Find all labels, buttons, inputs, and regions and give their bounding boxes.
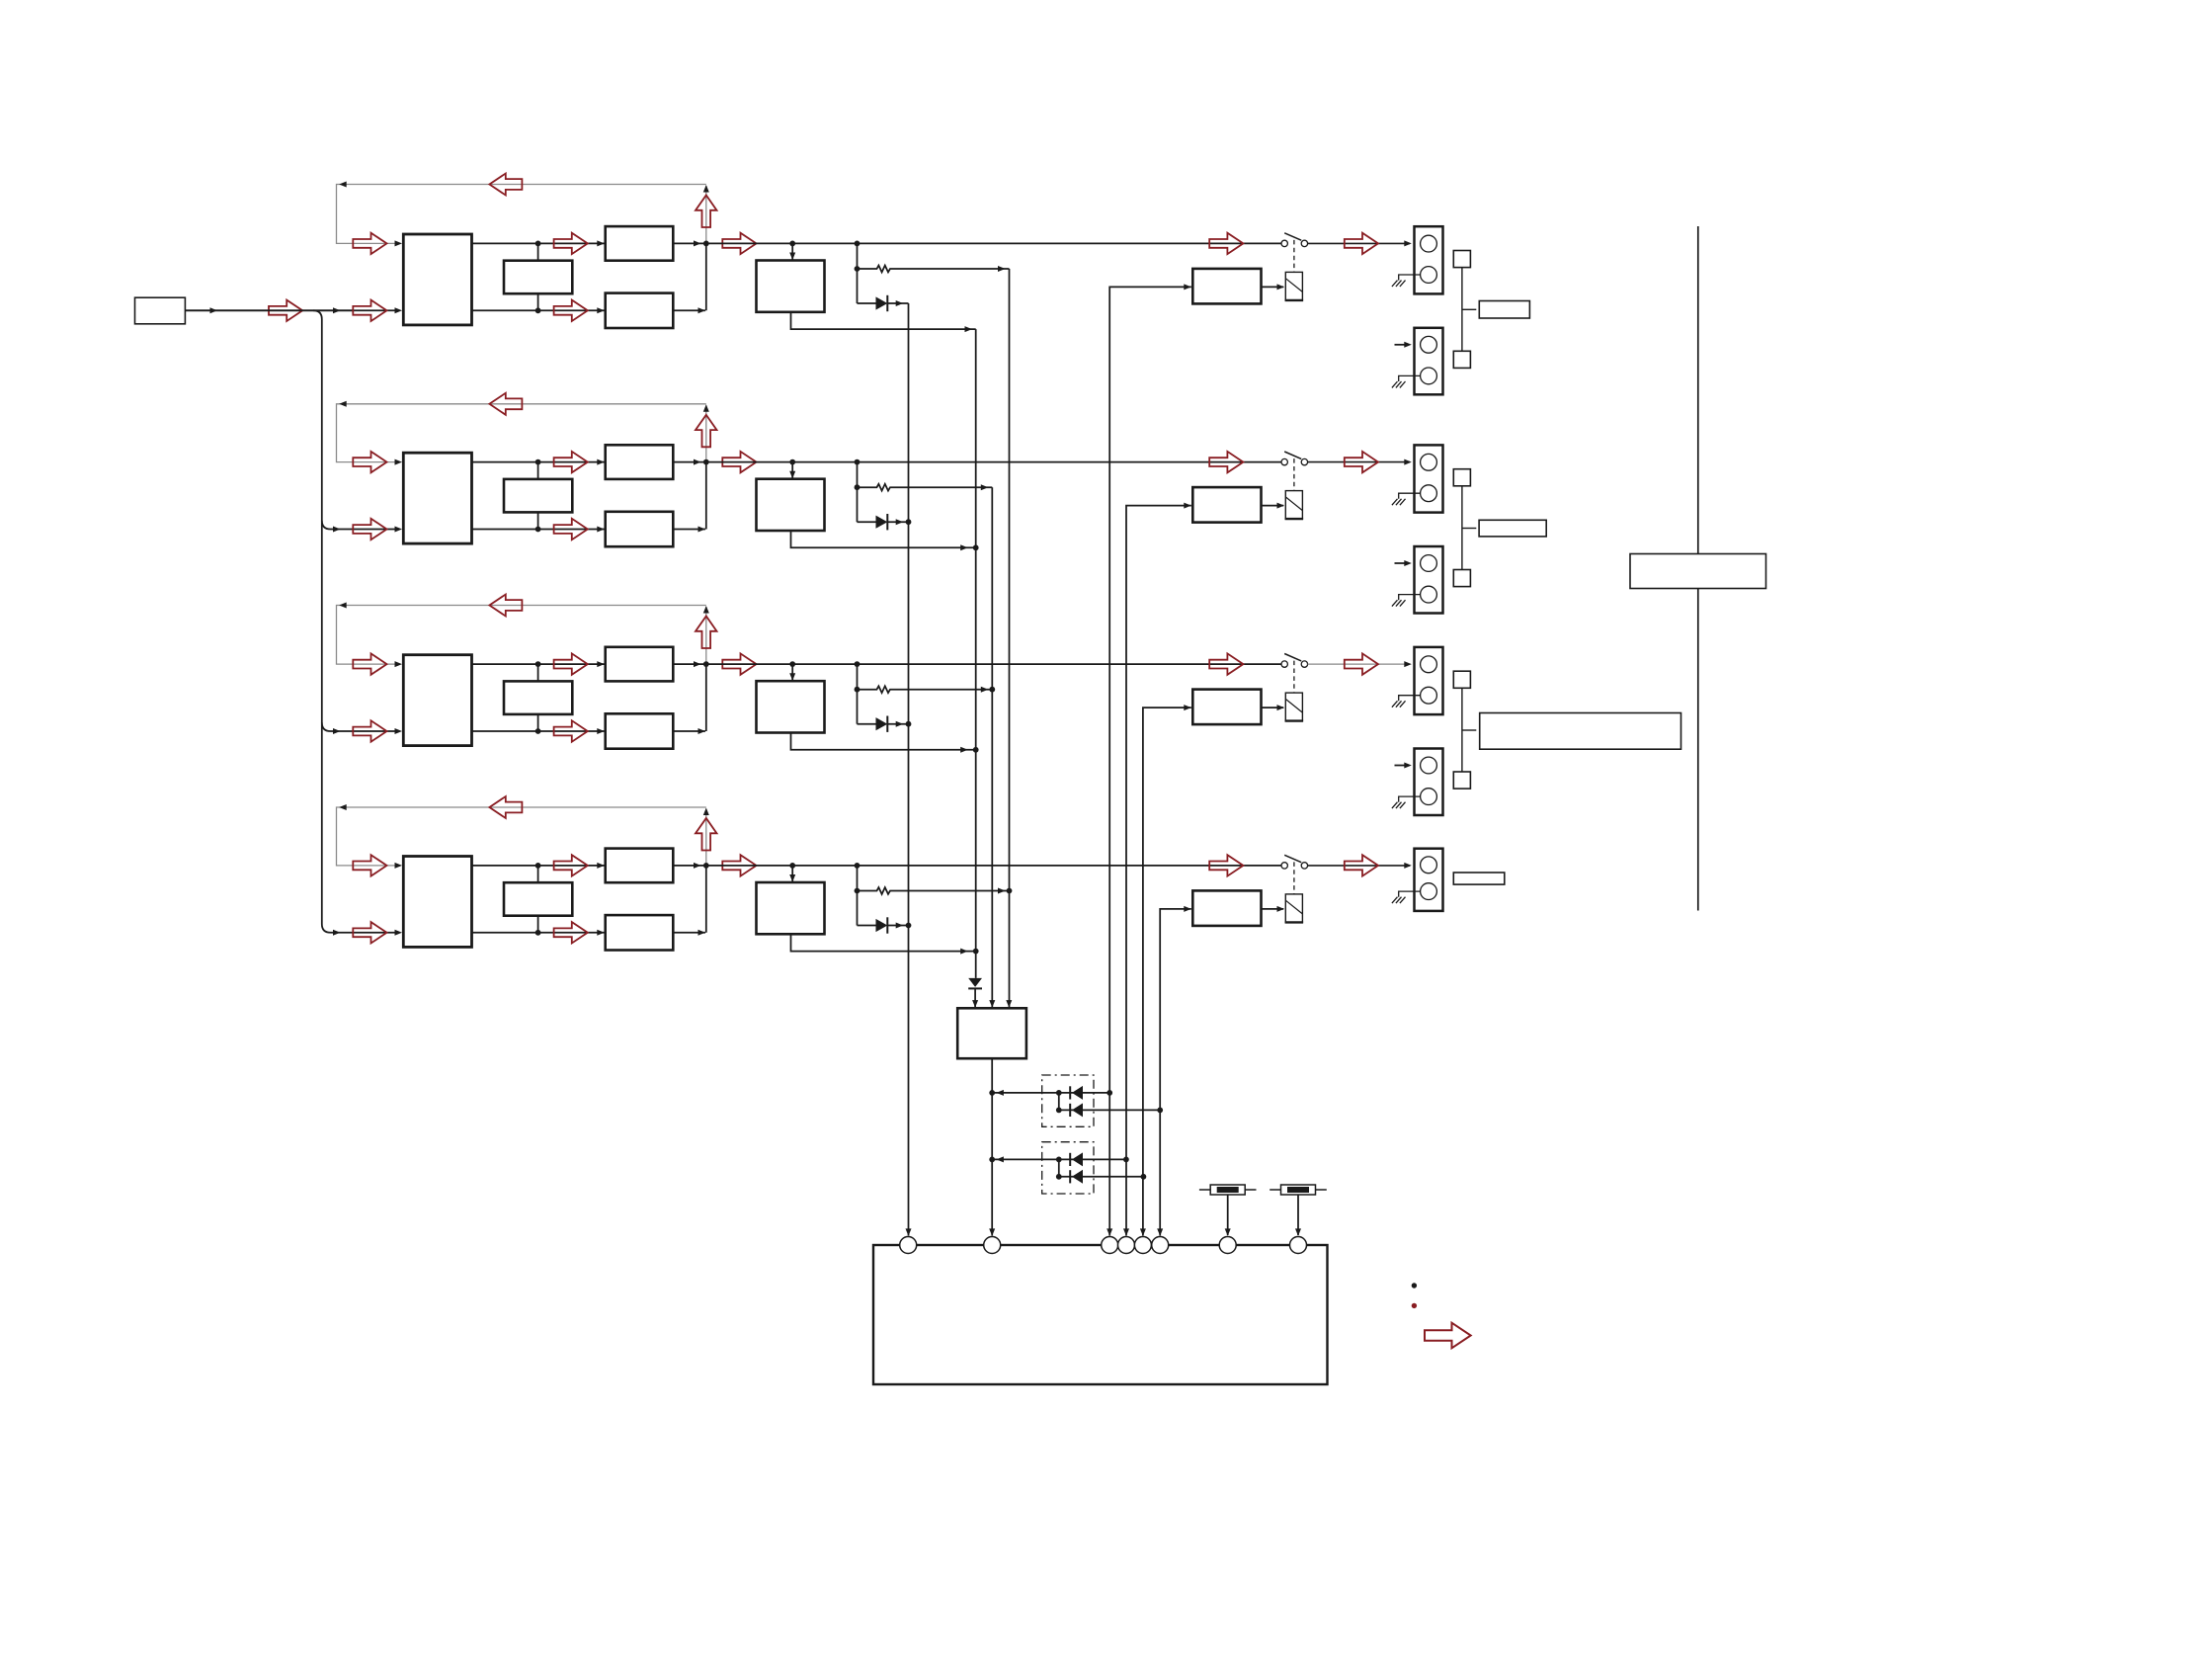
wire relay dashed link ch3 bbox=[1293, 661, 1295, 694]
diode pair box DP2 bbox=[1042, 1142, 1094, 1194]
terminal circle J3A-1 bbox=[1421, 656, 1437, 673]
diode CR8 bbox=[1070, 1152, 1083, 1166]
node resistor bus join ch3 bbox=[989, 687, 995, 693]
terminal T3 bbox=[1102, 1237, 1118, 1254]
arrowhead lower input ch2 bbox=[395, 527, 403, 533]
connector pad S2B bbox=[1453, 570, 1470, 587]
wire chassis bus lower bbox=[1697, 589, 1699, 911]
wire driver out ch1 bbox=[791, 312, 976, 332]
wire switch to terminals ch2 bbox=[1308, 459, 1412, 465]
wire relay coil feed ch1 bbox=[1262, 284, 1285, 290]
wire ground stub J3B bbox=[1399, 796, 1421, 802]
wire filter stubs ch1 bbox=[537, 243, 539, 310]
wire ground stub J1A bbox=[1399, 275, 1421, 281]
connector pad S2A bbox=[1453, 469, 1470, 486]
signal flow arrow post switch ch1 bbox=[1345, 233, 1378, 254]
node lower junction ch3 bbox=[535, 728, 541, 734]
wire relay feed ch3 bbox=[1140, 705, 1191, 1236]
node lower junction ch1 bbox=[535, 307, 541, 313]
wire filter stubs ch4 bbox=[537, 866, 539, 933]
wire feedback rise ch4 bbox=[703, 808, 709, 866]
wire upper output ch1 bbox=[472, 240, 605, 246]
wire output line ch4 bbox=[706, 865, 1281, 867]
ground J4A bbox=[1392, 897, 1406, 903]
impedance block Z2 bbox=[1479, 520, 1546, 537]
connector pad S3A bbox=[1453, 671, 1470, 688]
wire chassis bus upper bbox=[1697, 226, 1699, 554]
driver block D3 bbox=[757, 681, 825, 732]
node upper junction ch2 bbox=[535, 459, 541, 465]
wire driver drop ch2 bbox=[789, 462, 795, 479]
impedance block Z3 bbox=[1480, 713, 1681, 750]
node output junction ch4 bbox=[703, 863, 709, 869]
node sense tap ch4 bbox=[855, 863, 860, 869]
switch SW4 bbox=[1281, 855, 1308, 869]
wire link vertical ch1 bbox=[1462, 268, 1476, 352]
chassis block bbox=[1630, 554, 1766, 589]
driver block D4 bbox=[757, 882, 825, 934]
signal flow arrow post switch ch4 bbox=[1345, 855, 1378, 875]
wire ground stub J4A bbox=[1399, 891, 1421, 897]
node DP2 inner upper bbox=[1056, 1157, 1062, 1163]
wire stub J2B bbox=[1395, 560, 1412, 566]
resistor R3 bbox=[858, 686, 993, 693]
wire DP1 lower bbox=[1059, 1109, 1160, 1111]
node driver tap ch4 bbox=[789, 863, 795, 869]
resistor R4 bbox=[858, 887, 1010, 894]
fuse F1 bbox=[1199, 1185, 1257, 1236]
node upper junction ch4 bbox=[535, 863, 541, 869]
signal flow arrow lower mid ch3 bbox=[554, 720, 588, 741]
speaker terminal block J3B bbox=[1415, 749, 1443, 816]
wire relay dashed link ch2 bbox=[1293, 458, 1295, 491]
wire relay coil feed ch3 bbox=[1262, 705, 1285, 710]
legend signal flow arrow bbox=[1425, 1323, 1471, 1349]
diode CR2 bbox=[858, 514, 909, 530]
diode CR5 down bbox=[968, 978, 982, 1008]
wire input distribution vertical bbox=[313, 310, 353, 936]
output stage upper U2A bbox=[606, 445, 674, 479]
wire feedback rise ch2 bbox=[703, 404, 709, 461]
diode CR9 bbox=[1070, 1170, 1083, 1184]
speaker terminal block J4A bbox=[1415, 849, 1443, 911]
diode CR4 bbox=[858, 917, 909, 933]
node DP1 inner lower bbox=[1056, 1108, 1062, 1114]
terminal T8 bbox=[1290, 1237, 1307, 1254]
node DP2 ch3 join bbox=[1141, 1174, 1147, 1180]
input source box bbox=[135, 297, 186, 324]
signal flow arrow lower mid ch1 bbox=[554, 300, 588, 321]
impedance block Z4 bbox=[1453, 873, 1505, 884]
switch SW2 bbox=[1281, 452, 1308, 465]
filter block F4 bbox=[504, 882, 572, 916]
output stage lower U3B bbox=[606, 713, 674, 748]
terminal T7 bbox=[1219, 1237, 1236, 1254]
output stage lower U1B bbox=[606, 293, 674, 328]
arrowhead lower input ch3 bbox=[395, 728, 403, 734]
output stage lower U4B bbox=[606, 915, 674, 950]
wire relay coil feed ch4 bbox=[1262, 906, 1285, 912]
wire driver drop ch4 bbox=[789, 866, 795, 882]
signal flow arrow feedback ch1 bbox=[489, 174, 522, 196]
node DP2 inner lower bbox=[1056, 1174, 1062, 1180]
wire DP1 inner vertical bbox=[1058, 1093, 1060, 1111]
terminal circle J2B-1 bbox=[1421, 555, 1437, 572]
node resistor tap ch3 bbox=[855, 687, 860, 693]
terminal T5 bbox=[1134, 1237, 1151, 1254]
filter block F3 bbox=[504, 681, 572, 714]
node lower junction ch4 bbox=[535, 930, 541, 936]
wire driver out ch2 bbox=[791, 531, 976, 550]
impedance block Z1 bbox=[1479, 301, 1529, 319]
wire driver drop ch1 bbox=[789, 243, 795, 260]
terminal circle J2A-1 bbox=[1421, 454, 1437, 470]
wire lower input ch3 bbox=[353, 730, 395, 732]
terminal circle J1B-1 bbox=[1421, 336, 1437, 353]
speaker terminal block J2A bbox=[1415, 445, 1443, 512]
wire relay feed ch1 bbox=[1106, 284, 1191, 1236]
wire output line ch1 bbox=[706, 242, 1281, 244]
wire lower stage out ch4 bbox=[673, 930, 705, 936]
terminal circle J1A-1 bbox=[1421, 235, 1437, 252]
terminal circle J2B-2 bbox=[1421, 586, 1437, 603]
wire sense drop ch1 bbox=[857, 243, 859, 303]
ground J3B bbox=[1392, 802, 1406, 808]
wire stub J1B bbox=[1395, 342, 1412, 348]
diode CR6 bbox=[1070, 1086, 1083, 1100]
wire switch to terminals ch3 bbox=[1308, 661, 1412, 667]
legend node black bbox=[1412, 1283, 1417, 1288]
node upper junction ch1 bbox=[535, 241, 541, 247]
wire resistor bus A bbox=[989, 487, 995, 1007]
wire sense drop ch4 bbox=[857, 866, 859, 926]
diode pair box DP1 bbox=[1042, 1075, 1094, 1126]
wire output line ch3 bbox=[706, 663, 1281, 665]
wire switch to terminals ch1 bbox=[1308, 240, 1412, 246]
terminal circle J1B-2 bbox=[1421, 368, 1437, 384]
wire lower stage out ch3 bbox=[673, 728, 705, 734]
signal flow arrow up ch2 bbox=[696, 415, 717, 448]
wire lower output ch2 bbox=[472, 527, 605, 533]
connector pad S1A bbox=[1453, 251, 1470, 268]
switch SW1 bbox=[1281, 233, 1308, 247]
signal flow arrow lower input ch2 bbox=[353, 519, 386, 540]
terminal circle J2A-2 bbox=[1421, 485, 1437, 502]
wire upper output ch3 bbox=[472, 661, 605, 667]
switch SW3 bbox=[1281, 654, 1308, 668]
node output junction ch1 bbox=[703, 241, 709, 247]
node resistor tap ch1 bbox=[855, 266, 860, 272]
signal flow arrow output ch1 bbox=[722, 233, 756, 254]
output stage upper U4A bbox=[606, 849, 674, 883]
relay K2 bbox=[1285, 491, 1304, 519]
terminal circle J3B-2 bbox=[1421, 789, 1437, 805]
terminal T1 bbox=[900, 1237, 917, 1254]
node upper junction ch3 bbox=[535, 661, 541, 667]
arrowhead lower input ch4 bbox=[395, 930, 403, 936]
connector pad S3B bbox=[1453, 772, 1470, 789]
terminal T4 bbox=[1118, 1237, 1135, 1254]
node diode bus join ch4 bbox=[906, 923, 912, 929]
wire link vertical ch2 bbox=[1462, 486, 1476, 570]
diode CR7 bbox=[1070, 1103, 1083, 1117]
wire protection output bbox=[989, 1058, 995, 1236]
node driver tap ch2 bbox=[789, 459, 795, 465]
arrowhead lower input ch1 bbox=[395, 307, 403, 313]
node lower junction ch2 bbox=[535, 527, 541, 533]
terminal circle J3A-2 bbox=[1421, 687, 1437, 704]
relay driver block RD3 bbox=[1192, 690, 1261, 725]
wire lower input ch4 bbox=[353, 932, 395, 934]
wire lower output ch3 bbox=[472, 728, 605, 734]
node DP1 ch4 join bbox=[1157, 1108, 1163, 1114]
wire output combiner vertical ch3 bbox=[705, 664, 707, 731]
wire driver out ch4 bbox=[791, 934, 976, 954]
driver block D1 bbox=[757, 261, 825, 312]
signal flow arrow lower mid ch2 bbox=[554, 519, 588, 540]
wire lower stage out ch2 bbox=[673, 527, 705, 533]
wire resistor bus B bbox=[1006, 269, 1012, 1008]
relay K4 bbox=[1285, 894, 1304, 923]
wire input to channel 1 bbox=[185, 307, 352, 313]
diode CR3 bbox=[858, 716, 909, 732]
wire lower input ch1 bbox=[185, 309, 394, 311]
node driver bus join ch4 bbox=[973, 949, 979, 955]
signal flow arrow upper mid ch1 bbox=[554, 233, 588, 254]
signal flow arrow output ch3 bbox=[722, 653, 756, 674]
terminal circle J3B-1 bbox=[1421, 757, 1437, 774]
signal flow arrow pre-switch ch4 bbox=[1209, 855, 1243, 875]
legend node red bbox=[1412, 1303, 1417, 1308]
wire DP1 upper bbox=[992, 1090, 1109, 1096]
signal flow arrow upper input ch4 bbox=[353, 855, 386, 875]
wire output line ch2 bbox=[706, 461, 1281, 463]
signal flow arrow output ch4 bbox=[722, 855, 756, 875]
wire ground stub J1B bbox=[1399, 375, 1421, 381]
ground J2B bbox=[1392, 600, 1406, 606]
speaker terminal block J1A bbox=[1415, 226, 1443, 293]
amplifier block A1 bbox=[403, 234, 471, 325]
ground J1B bbox=[1392, 381, 1406, 387]
signal flow arrow post switch ch3 bbox=[1345, 653, 1378, 674]
signal flow arrow feedback ch4 bbox=[489, 796, 522, 818]
output stage upper U1A bbox=[606, 226, 674, 261]
node driver tap ch3 bbox=[789, 661, 795, 667]
wire upper stage out ch4 bbox=[673, 863, 706, 869]
relay K3 bbox=[1285, 693, 1304, 721]
signal flow arrow up ch3 bbox=[696, 617, 717, 649]
signal flow arrow input bbox=[269, 300, 302, 321]
wire sense drop ch3 bbox=[857, 664, 859, 724]
amplifier block A4 bbox=[403, 857, 471, 948]
signal flow arrow feedback ch2 bbox=[489, 393, 522, 415]
signal flow arrow upper input ch1 bbox=[353, 233, 386, 254]
signal flow arrow lower input ch1 bbox=[353, 300, 386, 321]
node driver tap ch1 bbox=[789, 241, 795, 247]
signal flow arrow feedback ch3 bbox=[489, 595, 522, 617]
connector pad S1B bbox=[1453, 351, 1470, 368]
signal flow arrow pre-switch ch3 bbox=[1209, 653, 1243, 674]
wire output combiner vertical ch1 bbox=[705, 243, 707, 310]
speaker terminal block J3A bbox=[1415, 647, 1443, 714]
wire lower stage out ch1 bbox=[673, 307, 705, 313]
signal flow arrow upper mid ch4 bbox=[554, 855, 588, 875]
wire switch to terminals ch4 bbox=[1308, 863, 1412, 869]
arrowhead upper input ch1 bbox=[395, 240, 403, 246]
node output junction ch3 bbox=[703, 661, 709, 667]
output stage lower U2B bbox=[606, 512, 674, 546]
wire filter stubs ch3 bbox=[537, 664, 539, 731]
relay K1 bbox=[1285, 272, 1304, 300]
terminal T2 bbox=[984, 1237, 1001, 1254]
signal flow arrow post switch ch2 bbox=[1345, 452, 1378, 472]
signal flow arrow pre-switch ch2 bbox=[1209, 452, 1243, 472]
wire relay feed ch2 bbox=[1123, 503, 1191, 1236]
wire feedback rise ch3 bbox=[703, 606, 709, 664]
wire lower input ch2 bbox=[353, 529, 395, 531]
ground J1A bbox=[1392, 281, 1406, 287]
speaker terminal block J2B bbox=[1415, 546, 1443, 614]
signal flow arrow upper mid ch2 bbox=[554, 452, 588, 472]
wire lower output ch4 bbox=[472, 930, 605, 936]
signal flow arrow pre-switch ch1 bbox=[1209, 233, 1243, 254]
wire ground stub J2A bbox=[1399, 493, 1421, 499]
node protection tap DP1 bbox=[989, 1090, 995, 1096]
ground J3A bbox=[1392, 701, 1406, 707]
wire stub J3B bbox=[1395, 763, 1412, 769]
wire upper stage out ch1 bbox=[673, 240, 706, 246]
signal flow arrow upper mid ch3 bbox=[554, 653, 588, 674]
output stage upper U3A bbox=[606, 647, 674, 682]
node sense tap ch1 bbox=[855, 241, 860, 247]
wire relay dashed link ch4 bbox=[1293, 862, 1295, 894]
wire feedback rise ch1 bbox=[703, 185, 709, 243]
wire DP2 lower bbox=[1059, 1176, 1144, 1178]
signal flow arrow lower input ch4 bbox=[353, 922, 386, 943]
terminal circle J1A-2 bbox=[1421, 267, 1437, 284]
wire feedback loop ch4 bbox=[337, 804, 706, 866]
wire DP2 upper bbox=[992, 1156, 1126, 1162]
arrowhead upper input ch3 bbox=[395, 661, 403, 667]
wire driver drop ch3 bbox=[789, 664, 795, 681]
node DP1 relay join bbox=[1106, 1090, 1112, 1096]
filter block F1 bbox=[504, 261, 572, 294]
arrowhead upper input ch4 bbox=[395, 863, 403, 869]
wire ground stub J2B bbox=[1399, 595, 1421, 601]
wire feedback loop ch2 bbox=[337, 401, 706, 462]
wire diode bus bbox=[906, 303, 912, 1236]
wire feedback loop ch3 bbox=[337, 603, 706, 665]
system control block U6 bbox=[873, 1245, 1328, 1384]
wire relay feed ch4 bbox=[1157, 906, 1191, 1236]
node driver bus join ch2 bbox=[973, 544, 979, 550]
node driver bus join ch3 bbox=[973, 747, 979, 753]
signal flow arrow up ch4 bbox=[696, 818, 717, 851]
node diode bus join ch3 bbox=[906, 721, 912, 727]
wire relay coil feed ch2 bbox=[1262, 503, 1285, 509]
wire output combiner vertical ch4 bbox=[705, 866, 707, 933]
node DP2 ch2 join bbox=[1123, 1157, 1129, 1163]
wire output combiner vertical ch2 bbox=[705, 462, 707, 530]
resistor R2 bbox=[858, 484, 993, 491]
wire link vertical ch3 bbox=[1462, 688, 1476, 772]
fuse F2 bbox=[1270, 1185, 1327, 1236]
wire relay dashed link ch1 bbox=[1293, 240, 1295, 273]
speaker terminal block J1B bbox=[1415, 328, 1443, 395]
node output junction ch2 bbox=[703, 459, 709, 465]
node sense tap ch3 bbox=[855, 661, 860, 667]
ground J2A bbox=[1392, 499, 1406, 505]
wire driver out ch3 bbox=[791, 733, 976, 753]
wire sense drop ch2 bbox=[857, 462, 859, 523]
wire filter stubs ch2 bbox=[537, 462, 539, 530]
signal flow arrow up ch1 bbox=[696, 196, 717, 228]
amplifier block A3 bbox=[403, 655, 471, 746]
terminal circle J4A-1 bbox=[1421, 857, 1437, 874]
filter block F2 bbox=[504, 479, 572, 513]
node DP1 inner upper bbox=[1056, 1090, 1062, 1096]
wire DP2 inner vertical bbox=[1058, 1159, 1060, 1176]
relay driver block RD4 bbox=[1192, 890, 1261, 926]
wire upper output ch2 bbox=[472, 459, 605, 465]
node resistor bus join ch4 bbox=[1007, 888, 1013, 894]
node diode bus join ch2 bbox=[906, 519, 912, 525]
wire upper stage out ch2 bbox=[673, 459, 706, 465]
wire upper stage out ch3 bbox=[673, 661, 706, 667]
wire lower output ch1 bbox=[472, 307, 605, 313]
terminal circle J4A-2 bbox=[1421, 883, 1437, 900]
relay driver block RD1 bbox=[1192, 269, 1261, 304]
wire feedback loop ch1 bbox=[337, 182, 706, 244]
wire ground stub J3A bbox=[1399, 696, 1421, 702]
driver block D2 bbox=[757, 479, 825, 531]
signal flow arrow lower input ch3 bbox=[353, 720, 386, 741]
node resistor tap ch2 bbox=[855, 484, 860, 490]
resistor R1 bbox=[858, 266, 1010, 273]
arrowhead upper input ch2 bbox=[395, 459, 403, 465]
diode CR1 bbox=[858, 295, 909, 311]
amplifier block A2 bbox=[403, 453, 471, 543]
signal flow arrow output ch2 bbox=[722, 452, 756, 472]
wire driver bus bbox=[975, 329, 977, 978]
protection block U5 bbox=[957, 1008, 1026, 1058]
signal flow arrow upper input ch3 bbox=[353, 653, 386, 674]
signal flow arrow lower mid ch4 bbox=[554, 922, 588, 943]
wire upper output ch4 bbox=[472, 863, 605, 869]
node protection tap DP2 bbox=[989, 1157, 995, 1163]
node sense tap ch2 bbox=[855, 459, 860, 465]
signal flow arrow upper input ch2 bbox=[353, 452, 386, 472]
terminal T6 bbox=[1152, 1237, 1169, 1254]
node resistor tap ch4 bbox=[855, 888, 860, 894]
relay driver block RD2 bbox=[1192, 487, 1261, 522]
